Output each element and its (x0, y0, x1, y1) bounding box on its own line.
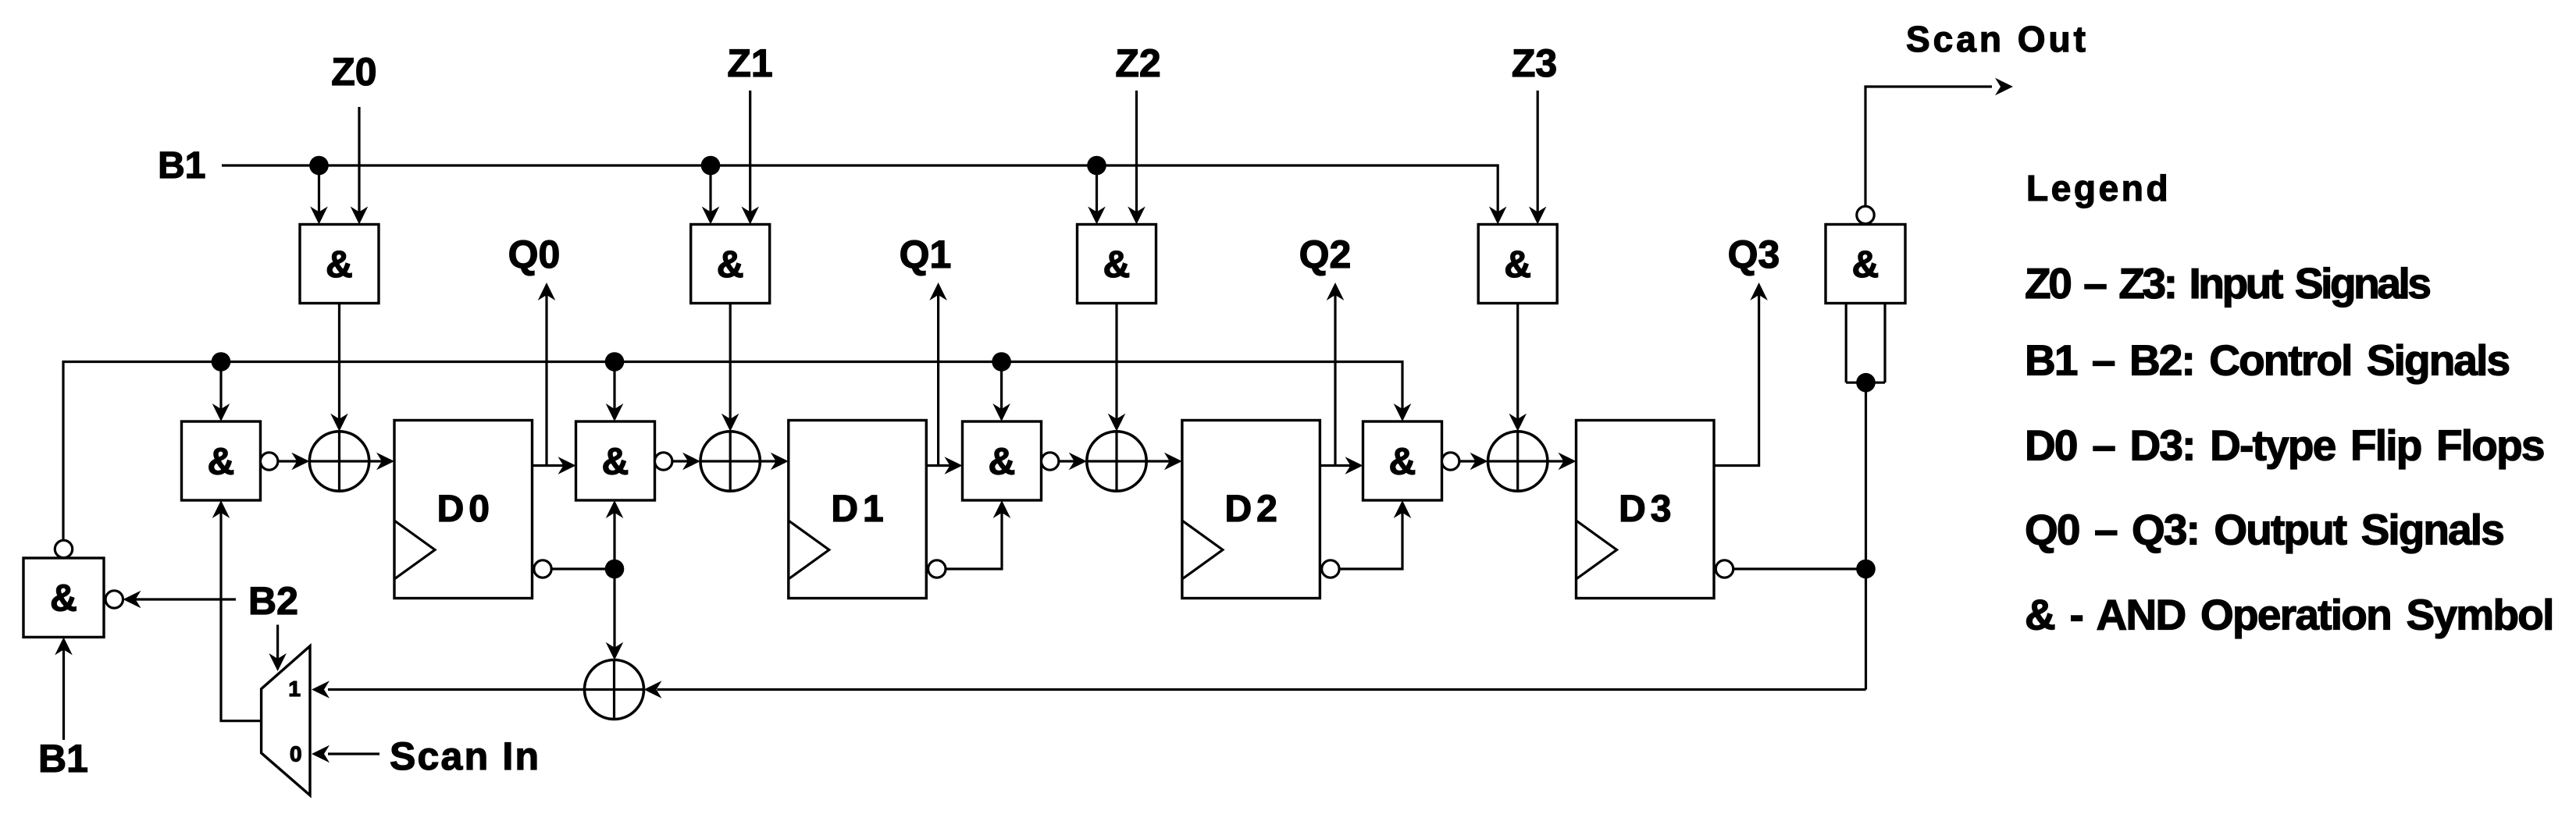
svg-text:& - AND Operation Symbol: & - AND Operation Symbol (2025, 591, 2553, 639)
svg-text:&: & (989, 442, 1016, 483)
junction D3 Qbar / scan vertical (1856, 560, 1876, 579)
wire bus2 drop to inter AND 2 (606, 362, 624, 422)
label Q0 output signal (508, 233, 561, 276)
label Scan Out (1906, 19, 2089, 59)
label B2 control signal (248, 579, 298, 623)
label legend D0-D3 (2025, 421, 2544, 470)
wire U7 to XOR X3 (1059, 453, 1087, 471)
and gate U5 (inter-stage) (182, 421, 261, 500)
wire X3 to D2 input (1146, 453, 1182, 471)
svg-text:&: & (50, 578, 77, 620)
wire U10 to Scan Out (1865, 78, 2013, 206)
flip-flop D3 (1577, 421, 1715, 599)
junction B1-stage2 (701, 156, 721, 176)
wire U1 output to XOR X1 (330, 304, 348, 432)
wire U10 input tie right (1883, 304, 1886, 383)
wire X2 to D1 input (760, 453, 788, 471)
label Scan In (390, 734, 540, 778)
svg-text:D0 – D3: D-type Flip Flops: D0 – D3: D-type Flip Flops (2025, 421, 2544, 470)
svg-text:B1 – B2: Control Signals: B1 – B2: Control Signals (2025, 336, 2509, 385)
flip-flop D1 (789, 421, 927, 599)
wire B1 to U2 (702, 165, 720, 225)
wire D3 Qbar to scan node (1733, 567, 1866, 570)
label Q3 output signal (1728, 233, 1780, 276)
and gate U9 (NAND, bottom-left) (23, 558, 104, 637)
wire X4 to D3 input (1548, 453, 1577, 471)
wire U2 output to XOR X2 (721, 304, 739, 432)
svg-text:D3: D3 (1619, 489, 1676, 530)
and gate U3 (B1 &amp; Z2) (1078, 225, 1156, 304)
xor gate X2 (700, 432, 760, 491)
label Z0 input signal (331, 50, 376, 94)
svg-text:&: & (1389, 442, 1416, 483)
wire D0 Q output to U6 (533, 457, 576, 475)
svg-text:Q0: Q0 (508, 233, 561, 276)
label Legend title (2026, 168, 2171, 208)
svg-text:Legend: Legend (2026, 168, 2171, 208)
wire B2 to U9 bubble (123, 591, 237, 609)
bubble U8 output (1442, 453, 1459, 470)
svg-text:B1: B1 (158, 145, 205, 187)
flip-flop D2 (1182, 421, 1320, 599)
label B1 (top-left control signal) (158, 145, 205, 187)
bubble U9 top output (55, 540, 72, 557)
svg-text:Z0: Z0 (331, 50, 376, 94)
junction bus2-stage2 (605, 352, 625, 371)
svg-text:&: & (1504, 244, 1531, 286)
svg-text:Z2: Z2 (1115, 41, 1160, 85)
label Z3 input signal (1512, 41, 1557, 85)
wire U8 to XOR X4 (1459, 453, 1488, 471)
junction B1-stage1 (309, 156, 329, 176)
wire D2 Qbar to U8 bottom (1339, 500, 1411, 569)
wire scan feedback line (644, 681, 1866, 698)
label legend AND symbol (2025, 591, 2553, 639)
svg-text:&: & (1103, 244, 1131, 286)
wire Q2 riser (1327, 283, 1345, 466)
wire Z2 to AND gate (1128, 91, 1145, 225)
and gate U8 (inter-stage) (1363, 421, 1442, 500)
label legend Z0-Z3 (2025, 259, 2430, 307)
junction U10 input tie (1856, 373, 1876, 393)
svg-text:D0: D0 (437, 489, 494, 530)
bubble U9 right input (105, 591, 123, 608)
wire Z0 to AND gate (351, 107, 369, 225)
wire U4 output to XOR X4 (1509, 304, 1527, 432)
svg-text:&: & (717, 244, 744, 286)
svg-text:Q2: Q2 (1299, 233, 1352, 276)
wire U5 to XOR X1 (278, 453, 309, 471)
and gate U1 (B1 &amp; Z0) (300, 225, 379, 304)
svg-text:Q3: Q3 (1728, 233, 1780, 276)
junction bus2-stage1 (212, 352, 231, 371)
wire U6 to XOR X2 (672, 453, 700, 471)
svg-text:Scan Out: Scan Out (1906, 19, 2089, 59)
svg-text:Q1: Q1 (900, 233, 952, 276)
label Z1 input signal (727, 41, 772, 85)
and gate U6 (inter-stage) (576, 421, 655, 500)
and gate U4 (B1 &amp; Z3) (1478, 225, 1557, 304)
label Q1 output signal (900, 233, 952, 276)
mux M1 (scan multiplexer) (262, 646, 310, 795)
xor gate X5 (scan feedback) (585, 660, 644, 720)
xor gate X4 (1488, 432, 1548, 491)
wire D1 Qbar to U7 bottom (946, 500, 1010, 569)
wire U10 input tie left (1845, 304, 1847, 383)
svg-text:Scan In: Scan In (390, 734, 540, 778)
svg-text:Z0 – Z3: Input Signals: Z0 – Z3: Input Signals (2025, 259, 2430, 307)
bubble U6 output (655, 453, 672, 470)
wire Q1 riser (929, 283, 947, 466)
wire B2 select to mux (269, 625, 287, 672)
wire X1 to D0 input (369, 453, 394, 471)
svg-text:D2: D2 (1224, 489, 1281, 530)
bubble D2 inverted output (1322, 560, 1339, 578)
svg-text:B1: B1 (38, 737, 88, 780)
bubble D0 inverted output (534, 560, 551, 578)
wire U3 output to XOR X3 (1108, 304, 1126, 432)
svg-text:Q0 – Q3: Output Signals: Q0 – Q3: Output Signals (2025, 506, 2503, 554)
wire Q0 riser (538, 283, 556, 466)
wire scan vertical (1865, 382, 1867, 689)
xor gate X1 (309, 432, 369, 491)
bubble D1 inverted output (928, 560, 946, 578)
wire B1 bus to AND4 left input (222, 165, 1507, 225)
wire D0 Qbar up to U6 (606, 500, 624, 569)
wire Z1 to AND gate (741, 91, 759, 225)
and gate U7 (inter-stage) (963, 421, 1042, 500)
xor gate X3 (1087, 432, 1146, 491)
wire bus2 drop to inter AND 3 (992, 362, 1010, 422)
and gate U2 (B1 &amp; Z1) (691, 225, 770, 304)
wire B1 to U9 bottom input (55, 637, 73, 740)
wire D3 Q output to Q3 riser (1714, 283, 1768, 466)
svg-text:&: & (208, 442, 235, 483)
label legend B1-B2 (2025, 336, 2509, 385)
bubble U10 output (1857, 206, 1874, 223)
svg-text:&: & (1852, 244, 1879, 286)
junction bus2-stage3 (992, 352, 1011, 371)
svg-text:&: & (326, 244, 353, 286)
svg-text:Z3: Z3 (1512, 41, 1557, 85)
wire D1 Q output to U7 (926, 457, 962, 475)
svg-text:D1: D1 (831, 489, 888, 530)
label Q2 output signal (1299, 233, 1352, 276)
wire U10 input tie bottom (1846, 382, 1885, 384)
junction B1-stage3 (1087, 156, 1106, 176)
bubble D3 inverted output (1716, 560, 1733, 578)
wire X5 output to mux input 1 (312, 681, 585, 698)
label legend Q0-Q3 (2025, 506, 2503, 554)
wire B1 to U1 (310, 165, 328, 225)
svg-text:B2: B2 (248, 579, 298, 623)
wire bus2 drop to inter AND 1 (212, 362, 230, 422)
wire D2 Q output to U8 (1320, 457, 1363, 475)
wire D0 Qbar to junction (551, 567, 615, 570)
wire Scan In to mux input 0 (312, 745, 379, 763)
svg-text:1: 1 (288, 677, 301, 701)
svg-text:0: 0 (290, 742, 302, 766)
junction D0 Qbar (605, 560, 625, 579)
wire D0 Qbar down to X5 (606, 569, 624, 660)
flip-flop D0 (394, 421, 533, 599)
label B1 (bottom-left) (38, 737, 88, 780)
label Z2 input signal (1115, 41, 1160, 85)
wire bus2 from NAND bubble to U8 top input (63, 362, 1411, 541)
svg-text:&: & (602, 442, 629, 483)
bubble U5 output (261, 453, 278, 470)
wire mux output to U5 bottom input (212, 500, 262, 721)
wire B1 to U3 (1088, 165, 1106, 225)
svg-text:Z1: Z1 (727, 41, 772, 85)
bubble U7 output (1042, 453, 1059, 470)
and gate U10 (output inverter) (1826, 225, 1905, 304)
wire Z3 to AND gate (1529, 91, 1547, 225)
